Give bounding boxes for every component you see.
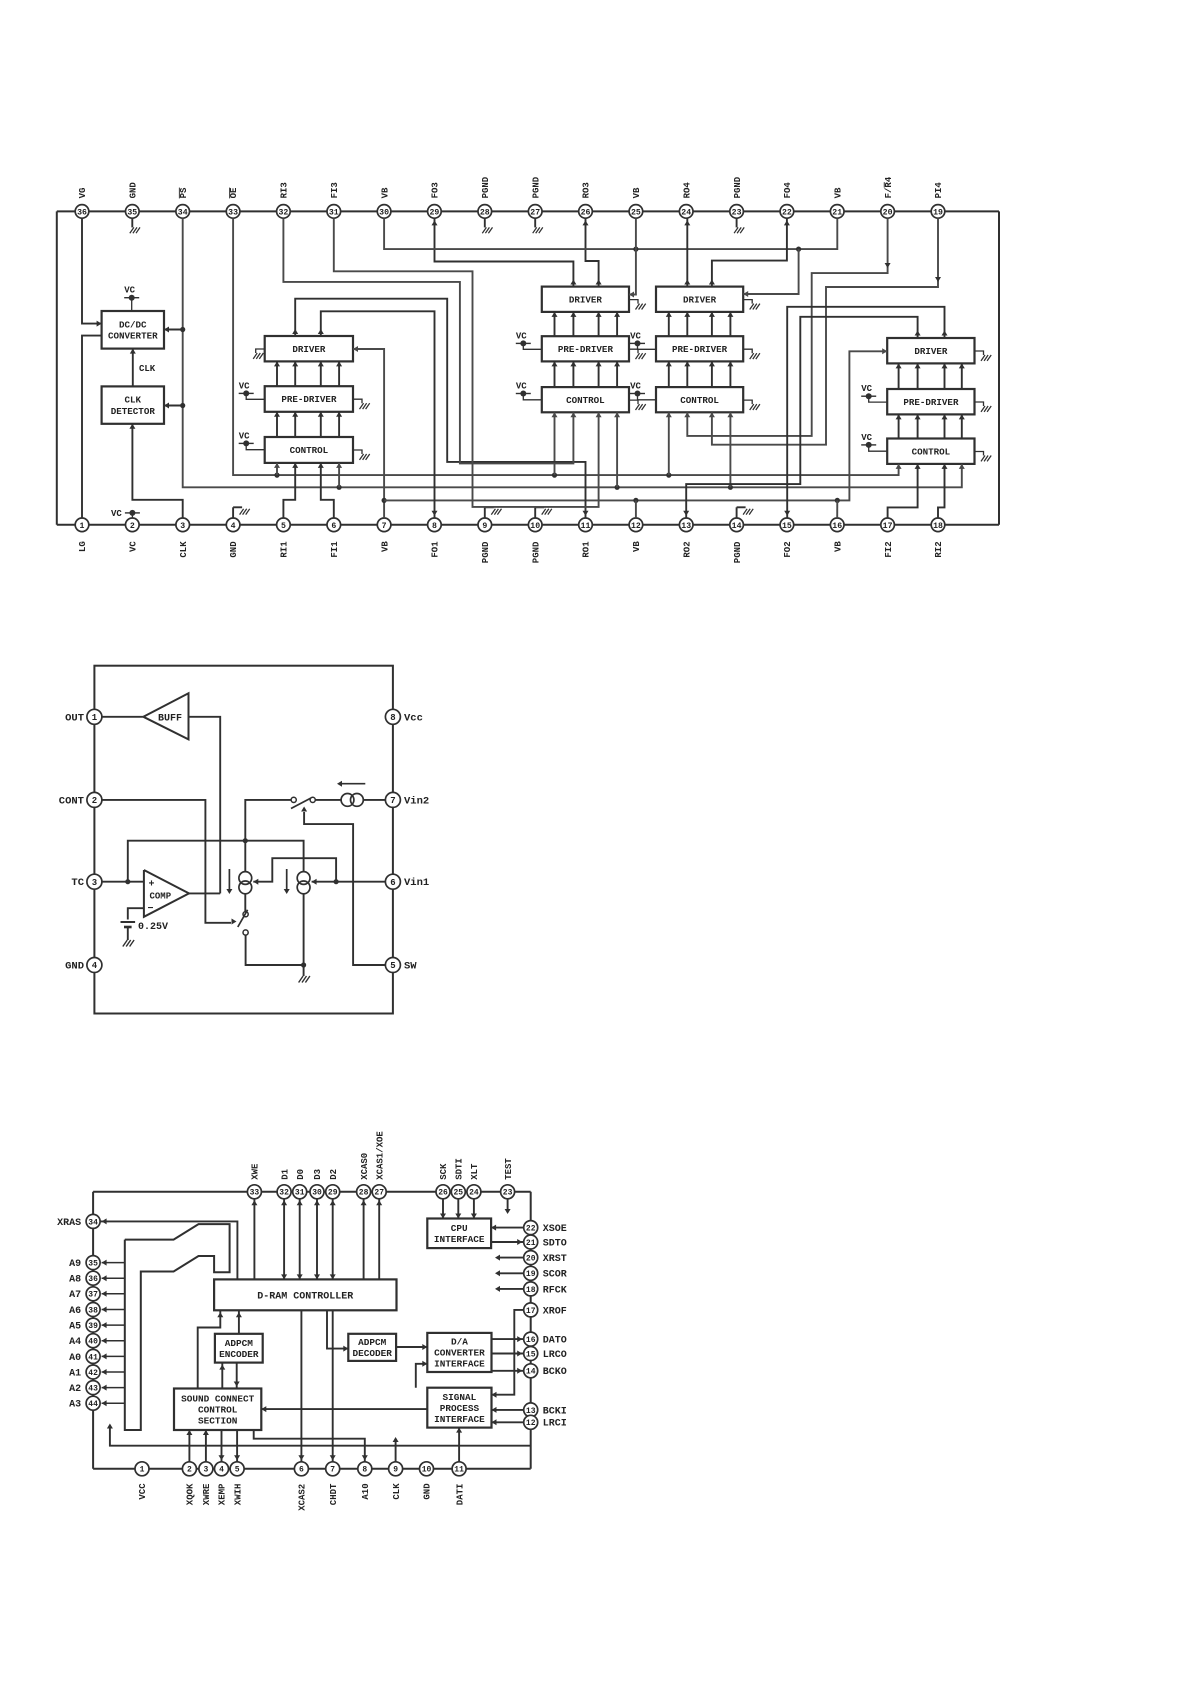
IC3 pin 22 (XSOE) — [524, 1221, 538, 1235]
wire data bus to controller — [299, 1198, 301, 1279]
wire FO1 driver1 to pin8 — [321, 311, 435, 518]
wire CONT pin2 to lower switch — [102, 800, 231, 923]
IC3 pin 33 (XWE) — [247, 1185, 261, 1199]
IC3 pin 42 (A1) — [86, 1365, 100, 1379]
wire CPU pins to CPU interface — [442, 1198, 444, 1218]
svg-text:SCK: SCK — [439, 1163, 449, 1180]
wire RI1 pin5 to control1 — [283, 463, 295, 518]
IC3 pin 6 (XCAS2) — [294, 1462, 308, 1476]
svg-text:LG: LG — [78, 541, 88, 552]
IC1 pin 8 (FO1) — [428, 518, 442, 532]
svg-text:33: 33 — [250, 1189, 260, 1198]
wire ch1 interconnect col 321 — [320, 361, 322, 386]
wire ch2 interconnect col 899 — [898, 363, 900, 389]
svg-text:OUT: OUT — [65, 712, 84, 724]
svg-text:DC/DC: DC/DC — [119, 319, 147, 330]
svg-text:CONTROL: CONTROL — [680, 395, 719, 406]
VC feed control chA — [516, 393, 531, 395]
svg-text:28: 28 — [359, 1189, 369, 1198]
wire SCCS to controller (jog) — [198, 1310, 221, 1388]
wire VG pin36 to DC/DC — [82, 218, 102, 323]
svg-text:36: 36 — [77, 208, 87, 217]
pre-driver ch2 — [887, 389, 974, 414]
IC3 pin 2 (XQOK) — [182, 1462, 196, 1476]
svg-text:A4: A4 — [69, 1337, 81, 1348]
svg-text:PRE-DRIVER: PRE-DRIVER — [558, 344, 614, 355]
wire RO3 driverA to pin26 — [586, 218, 599, 286]
VC feed control chB — [630, 393, 645, 395]
wire address A0 to pin 41 — [102, 1355, 125, 1357]
svg-text:8: 8 — [390, 713, 395, 723]
svg-text:VC: VC — [861, 433, 872, 443]
svg-text:FI1: FI1 — [330, 541, 340, 558]
IC3 pin 23 (TEST) — [501, 1185, 515, 1199]
wire CPU pins to CPU interface — [473, 1198, 475, 1218]
wire BUFF input from comparator — [189, 717, 221, 894]
wire SPI to SCCS — [261, 1408, 427, 1410]
IC3 pin 19 (SCOR) — [524, 1266, 538, 1280]
down arrow at CS2 — [286, 869, 288, 889]
svg-text:5: 5 — [390, 961, 395, 971]
wire XROF pin17 to signal process interface — [492, 1310, 525, 1395]
wire chB interconnect col 712 — [711, 312, 713, 336]
VC stub at pin2 — [125, 512, 140, 514]
wire SCCS to ADPCM encoder — [221, 1363, 223, 1389]
svg-text:31: 31 — [329, 208, 339, 217]
svg-text:BCKO: BCKO — [543, 1367, 567, 1378]
IC3 pin 37 (A7) — [86, 1287, 100, 1301]
svg-text:15: 15 — [526, 1350, 536, 1359]
ground stub pin 35 — [131, 218, 133, 227]
svg-text:SDTI: SDTI — [455, 1158, 465, 1180]
svg-text:1: 1 — [140, 1466, 145, 1475]
wire address A6 to pin 38 — [102, 1309, 125, 1311]
IC3 pin 17 (XROF) — [524, 1303, 538, 1317]
svg-text:5: 5 — [235, 1466, 240, 1475]
svg-text:PGND: PGND — [733, 541, 743, 563]
svg-text:PRE-DRIVER: PRE-DRIVER — [672, 344, 728, 355]
svg-text:16: 16 — [526, 1336, 536, 1345]
wire CLK pin3 to CLK detector — [132, 424, 182, 518]
IC1 pin 13 (RO2) — [679, 518, 693, 532]
svg-text:42: 42 — [88, 1369, 98, 1378]
IC1 pin 36 (VG) — [75, 205, 89, 219]
wire BCKI/LRCI to signal process interface — [492, 1421, 525, 1423]
svg-text:PGND: PGND — [733, 176, 743, 198]
IC1 pin 2 (VC) — [126, 518, 140, 532]
VC feed pre-driver ch1 — [239, 392, 254, 394]
svg-text:A5: A5 — [69, 1322, 81, 1333]
svg-text:RO1: RO1 — [582, 541, 592, 558]
svg-text:FI2: FI2 — [884, 541, 894, 557]
arrow CLK pin9 — [395, 1439, 397, 1462]
svg-text:37: 37 — [88, 1291, 98, 1300]
svg-text:GND: GND — [129, 182, 139, 199]
wire chB interconnect col 730 — [729, 312, 731, 336]
IC3 pin 31 (D0) — [293, 1185, 307, 1199]
wire SPI to D/A interface — [416, 1364, 428, 1388]
wire SDTO pin21 from CPU interface — [491, 1241, 524, 1243]
svg-text:D/A: D/A — [451, 1337, 468, 1348]
IC3 pin 38 (A6) — [86, 1303, 100, 1317]
svg-text:F/R4: F/R4 — [884, 176, 894, 198]
wire SCCS to A10 pin8 — [254, 1430, 365, 1462]
wire DATI pin11 to SPI — [458, 1428, 460, 1463]
wire XCAS2 from controller to pin6 — [300, 1310, 302, 1462]
wire address A1 to pin 42 — [102, 1371, 125, 1373]
ground stub pin 9 — [484, 507, 486, 518]
svg-text:DATO: DATO — [543, 1336, 567, 1347]
ground pre-driver chA — [629, 349, 638, 353]
svg-text:DRIVER: DRIVER — [683, 295, 717, 306]
wire VB top bus pin30/25/21 to driverA/B — [384, 218, 837, 249]
control chA — [542, 387, 629, 412]
svg-text:D1: D1 — [280, 1168, 290, 1179]
CPU interface block — [427, 1219, 491, 1249]
svg-text:XROF: XROF — [543, 1306, 567, 1317]
wire OE pin33 bus to controls — [233, 218, 899, 475]
IC3 pin 10 (GND) — [420, 1462, 434, 1476]
svg-text:15: 15 — [782, 522, 792, 531]
IC2 pin 4 (GND) — [87, 958, 102, 973]
current source CS1 — [239, 872, 252, 885]
svg-text:XRAS: XRAS — [57, 1218, 81, 1229]
svg-text:30: 30 — [379, 208, 389, 217]
svg-text:XCAS0: XCAS0 — [360, 1153, 370, 1180]
svg-text:A0: A0 — [69, 1353, 81, 1364]
svg-text:13: 13 — [681, 522, 691, 531]
svg-text:31: 31 — [295, 1189, 305, 1198]
ADPCM encoder block — [215, 1334, 263, 1363]
svg-text:7: 7 — [382, 522, 387, 531]
svg-text:3: 3 — [203, 1466, 208, 1475]
IC3 pin 4 (XEMP) — [215, 1462, 229, 1476]
IC3 pin 32 (D1) — [277, 1185, 291, 1199]
svg-text:PRE-DRIVER: PRE-DRIVER — [903, 397, 959, 408]
VC feed pre-driver chA — [516, 342, 531, 344]
wire COMP feedback rail — [128, 841, 304, 882]
wire D/A outputs to pins — [492, 1353, 525, 1355]
svg-text:9: 9 — [482, 522, 487, 531]
IC3 pin 44 (A3) — [86, 1396, 100, 1410]
wire BCKI/LRCI to signal process interface — [492, 1409, 525, 1411]
svg-text:PS: PS — [179, 187, 189, 198]
svg-text:VC: VC — [239, 431, 250, 441]
svg-text:13: 13 — [526, 1407, 536, 1416]
svg-text:21: 21 — [832, 208, 842, 217]
svg-text:CLK: CLK — [392, 1483, 402, 1500]
svg-text:FO4: FO4 — [783, 182, 793, 199]
svg-text:26: 26 — [438, 1189, 448, 1198]
svg-text:VC: VC — [111, 509, 122, 519]
IC3 pin 35 (A9) — [86, 1256, 100, 1270]
svg-text:3: 3 — [92, 878, 97, 888]
svg-text:INTERFACE: INTERFACE — [434, 1234, 485, 1245]
current source CS2 — [297, 872, 310, 885]
wire address A5 to pin 39 — [102, 1324, 125, 1326]
ground control ch2 — [975, 452, 984, 456]
wire PS bus taps to controls — [337, 485, 342, 490]
IC3 pin 30 (D3) — [310, 1185, 324, 1199]
current source CS3 on Vin2 — [341, 794, 354, 807]
svg-text:0.25V: 0.25V — [138, 922, 168, 933]
wire ch2 interconnect col 944 — [944, 363, 946, 389]
wire COMP output to switch control — [189, 892, 220, 894]
wire XRAS pin34 from D-RAM controller — [100, 1221, 238, 1279]
IC1 pin 26 (RO3) — [579, 205, 593, 219]
IC1 pin 1 (LG) — [75, 518, 89, 532]
IC3 pin 15 (LRCO) — [524, 1347, 538, 1361]
IC3 pin 1 (VCC) — [135, 1462, 149, 1476]
wire SW pin5 to upper switch blade — [304, 812, 385, 965]
svg-text:CLK: CLK — [139, 364, 156, 374]
svg-text:SECTION: SECTION — [198, 1416, 238, 1427]
IC3 pin 14 (BCKO) — [524, 1364, 538, 1378]
IC1 pin 34 (PS) — [176, 205, 190, 219]
IC1 pin 33 (OE) — [226, 205, 240, 219]
svg-text:Vin1: Vin1 — [404, 877, 429, 889]
wire FO3 driverA to pin29 — [435, 218, 574, 286]
wire PI4 pin19 to controlB — [712, 218, 938, 444]
svg-text:CONTROL: CONTROL — [290, 445, 329, 456]
down arrow at CS1 — [228, 869, 230, 889]
svg-text:VC: VC — [630, 331, 641, 341]
svg-text:36: 36 — [88, 1275, 98, 1284]
svg-text:XRST: XRST — [543, 1254, 567, 1265]
svg-text:SIGNAL: SIGNAL — [443, 1392, 477, 1403]
svg-text:VC: VC — [516, 331, 527, 341]
IC1 pin 29 (FO3) — [428, 205, 442, 219]
DC/DC converter block — [102, 311, 164, 349]
svg-text:6: 6 — [331, 522, 336, 531]
wire ch1 interconnect col 339 — [338, 361, 340, 386]
IC3 pin 27 (XCAS1/XOE) — [372, 1185, 386, 1199]
ground driver chB (right) — [743, 300, 752, 304]
svg-text:INTERFACE: INTERFACE — [434, 1414, 485, 1425]
ground stub pin 27 — [534, 218, 536, 227]
svg-text:A7: A7 — [69, 1290, 81, 1301]
IC3 pin 34 (XRAS) — [86, 1214, 100, 1228]
ground pre-driver ch1 — [353, 399, 362, 403]
wire RO2 driver2 to pin13 — [686, 317, 917, 518]
ground stub pin 23 — [736, 218, 738, 227]
svg-text:PGND: PGND — [531, 541, 541, 563]
svg-text:35: 35 — [127, 208, 137, 217]
ground stub pin 4 — [232, 507, 234, 518]
svg-text:XLT: XLT — [470, 1163, 480, 1180]
svg-text:VB: VB — [632, 187, 642, 198]
svg-text:DATI: DATI — [455, 1484, 465, 1506]
svg-text:RO2: RO2 — [682, 541, 692, 557]
signal process interface block — [427, 1388, 491, 1428]
svg-text:RO3: RO3 — [582, 182, 592, 198]
svg-text:14: 14 — [526, 1368, 536, 1377]
wires XQOK XWRE to SCCS — [188, 1430, 190, 1462]
svg-text:A2: A2 — [69, 1384, 81, 1395]
wire upper switch to CS1 column — [245, 800, 291, 841]
svg-text:1: 1 — [80, 522, 85, 531]
svg-text:27: 27 — [374, 1189, 384, 1198]
wire FI3 pin31 to controlA — [334, 218, 599, 507]
svg-text:D3: D3 — [313, 1169, 323, 1180]
svg-text:TEST: TEST — [504, 1158, 514, 1180]
svg-text:CONTROL: CONTROL — [566, 395, 605, 406]
svg-text:11: 11 — [581, 522, 591, 531]
svg-text:PGND: PGND — [481, 541, 491, 563]
wire FI2 pin17 to control2 — [888, 464, 918, 518]
svg-text:VC: VC — [129, 541, 139, 552]
VC feed pre-driver chB — [630, 342, 645, 344]
IC1 pin 24 (RO4) — [679, 205, 693, 219]
wire VB bottom bus pin7/12/16 to drivers — [353, 349, 384, 518]
svg-text:XCAS1/XOE: XCAS1/XOE — [375, 1131, 385, 1180]
ground driver ch1 (left) — [256, 349, 265, 353]
wire address A4 to pin 40 — [102, 1340, 125, 1342]
IC1 pin 25 (VB) — [629, 205, 643, 219]
ground pre-driver chB — [743, 349, 752, 353]
IC3 pin 16 (DATO) — [524, 1332, 538, 1346]
svg-text:2: 2 — [187, 1466, 192, 1475]
svg-text:38: 38 — [88, 1306, 98, 1315]
IC3 pin 8 (A10) — [358, 1462, 372, 1476]
wire F/R4 pin20 to controlB — [687, 218, 887, 436]
driver ch1 — [265, 336, 353, 361]
IC1 pin 7 (VB) — [377, 518, 391, 532]
svg-text:XQOK: XQOK — [186, 1483, 196, 1505]
CLK detector block — [102, 386, 164, 423]
svg-text:VC: VC — [630, 382, 641, 392]
wire FO2 driver2 to pin15 — [787, 307, 944, 518]
wire long feedback from right edge to arrow near pin44 — [110, 1426, 531, 1446]
svg-text:CONTROL: CONTROL — [198, 1405, 238, 1416]
ground control ch1 — [353, 450, 362, 454]
svg-text:XWRE: XWRE — [202, 1483, 212, 1505]
svg-text:SW: SW — [404, 961, 417, 973]
svg-text:25: 25 — [631, 208, 641, 217]
svg-text:FI3: FI3 — [330, 182, 340, 198]
svg-text:Vin2: Vin2 — [404, 795, 429, 807]
wire CLK detector to DC/DC (CLK) — [132, 349, 134, 387]
IC1 pin 10 (PGND) — [528, 518, 542, 532]
svg-text:VB: VB — [834, 187, 844, 198]
IC1 pin 17 (FI2) — [881, 518, 895, 532]
pre-driver ch1 — [265, 386, 353, 412]
svg-text:23: 23 — [503, 1189, 513, 1198]
wire chB interconnect col 669 — [668, 312, 670, 336]
svg-text:A1: A1 — [69, 1368, 81, 1379]
wire CPU pins to CPU interface — [457, 1198, 459, 1218]
svg-text:VB: VB — [834, 541, 844, 552]
ground stub pin 14 — [736, 507, 738, 518]
driver chA — [542, 287, 629, 312]
svg-text:VCC: VCC — [138, 1483, 148, 1500]
wire ch2 interconnect col 962 — [961, 363, 963, 389]
left arrow above CS3 — [342, 783, 365, 785]
svg-text:DECODER: DECODER — [353, 1348, 393, 1359]
wire XWE pin33 from controller — [253, 1198, 255, 1279]
IC3 pin 28 (XCAS0) — [357, 1185, 371, 1199]
svg-text:14: 14 — [732, 522, 742, 531]
svg-text:8: 8 — [432, 522, 437, 531]
svg-text:FO2: FO2 — [783, 541, 793, 557]
svg-text:17: 17 — [526, 1307, 536, 1316]
IC2 pin 1 (OUT) — [87, 709, 102, 724]
IC3 pin 26 (SCK) — [436, 1185, 450, 1199]
svg-text:41: 41 — [88, 1353, 98, 1362]
svg-text:INTERFACE: INTERFACE — [434, 1359, 485, 1370]
wire FI1 pin6 to control1 — [321, 463, 334, 518]
svg-text:6: 6 — [390, 878, 395, 888]
svg-text:GND: GND — [65, 961, 84, 973]
ground at current sources — [303, 965, 305, 976]
IC3 pin 11 (DATI) — [452, 1462, 466, 1476]
svg-text:D0: D0 — [296, 1169, 306, 1180]
IC1 pin 11 (RO1) — [579, 518, 593, 532]
svg-text:40: 40 — [88, 1338, 98, 1347]
svg-text:TC: TC — [71, 877, 84, 889]
IC1 pin 30 (VB) — [377, 205, 391, 219]
wires XEMP XWIH from SCCS — [221, 1430, 223, 1462]
svg-text:RI2: RI2 — [934, 541, 944, 557]
svg-text:Vcc: Vcc — [404, 712, 423, 724]
wire Vin2 pin7 to CS3 and switch — [363, 799, 385, 801]
ground control chA — [629, 400, 638, 404]
svg-text:COMP: COMP — [150, 892, 172, 902]
svg-text:PGND: PGND — [531, 176, 541, 198]
svg-text:+: + — [149, 880, 155, 891]
wire RI3 pin32 to controlA — [283, 218, 573, 463]
svg-text:4: 4 — [92, 961, 98, 971]
IC1 pin 5 (RI1) — [277, 518, 291, 532]
control chB — [656, 387, 743, 412]
driver chB — [656, 287, 743, 312]
svg-text:VC: VC — [861, 384, 872, 394]
svg-text:5: 5 — [281, 522, 286, 531]
svg-text:DETECTOR: DETECTOR — [111, 406, 156, 417]
svg-text:VG: VG — [78, 188, 88, 199]
svg-text:27: 27 — [530, 208, 540, 217]
sound connect control section block — [174, 1389, 261, 1431]
wire data bus to controller — [332, 1198, 334, 1279]
svg-text:7: 7 — [330, 1466, 335, 1475]
svg-text:28: 28 — [480, 208, 490, 217]
svg-text:35: 35 — [88, 1260, 98, 1269]
IC3 pin 43 (A2) — [86, 1381, 100, 1395]
IC1 pin 9 (PGND) — [478, 518, 492, 532]
pre-driver chA — [542, 336, 629, 361]
IC1 pin 35 (GND) — [126, 205, 140, 219]
IC3 pin 39 (A5) — [86, 1318, 100, 1332]
wire FO4 driverB to pin22 — [712, 218, 787, 286]
svg-text:BCKI: BCKI — [543, 1406, 567, 1417]
svg-text:4: 4 — [231, 522, 236, 531]
svg-text:11: 11 — [454, 1466, 464, 1475]
IC1 pin 14 (PGND) — [730, 518, 744, 532]
wire D/A outputs to pins — [492, 1338, 525, 1340]
wire data bus to controller — [316, 1198, 318, 1279]
svg-text:39: 39 — [88, 1322, 98, 1331]
svg-text:CLK: CLK — [179, 541, 189, 558]
ground stub pin 28 — [484, 218, 486, 227]
ground driver ch2 (right) — [975, 351, 984, 355]
IC3 pin 12 (LRCI) — [524, 1415, 538, 1429]
svg-text:PI4: PI4 — [934, 182, 944, 199]
svg-text:FO3: FO3 — [431, 182, 441, 198]
IC1 pin 19 (PI4) — [931, 205, 945, 219]
svg-text:PRE-DRIVER: PRE-DRIVER — [281, 394, 337, 405]
svg-text:D2: D2 — [329, 1169, 339, 1180]
svg-text:25: 25 — [453, 1189, 463, 1198]
